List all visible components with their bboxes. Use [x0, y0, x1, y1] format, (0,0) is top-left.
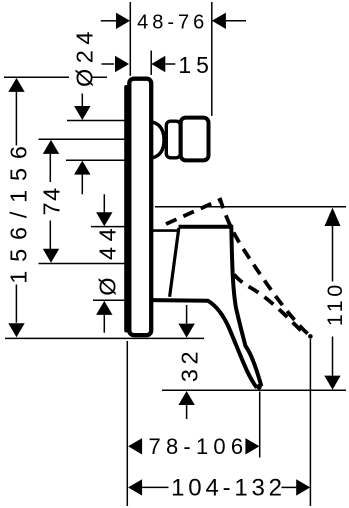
svg-text:156/156: 156/156: [6, 137, 32, 284]
svg-text:15: 15: [178, 52, 214, 78]
svg-text:48-76: 48-76: [137, 12, 208, 34]
svg-text:Ø 44: Ø 44: [94, 223, 120, 296]
svg-text:74: 74: [38, 186, 64, 215]
svg-text:Ø24: Ø24: [71, 26, 97, 87]
svg-text:78-106: 78-106: [149, 434, 249, 459]
svg-text:104-132: 104-132: [171, 475, 286, 502]
svg-text:110: 110: [323, 281, 347, 326]
svg-text:32: 32: [176, 347, 202, 382]
